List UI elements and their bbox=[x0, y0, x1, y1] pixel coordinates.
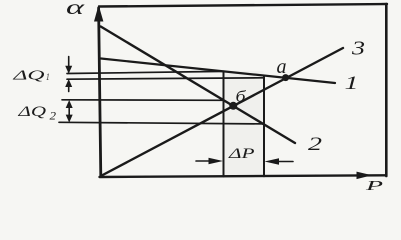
svg-text:1: 1 bbox=[46, 72, 50, 82]
svg-text:P: P bbox=[364, 178, 383, 193]
svg-text:3: 3 bbox=[351, 38, 365, 60]
svg-text:1: 1 bbox=[345, 73, 359, 94]
svg-text:ΔP: ΔP bbox=[228, 146, 255, 162]
svg-text:ΔQ: ΔQ bbox=[17, 104, 47, 120]
svg-text:2: 2 bbox=[50, 109, 57, 123]
svg-text:a: a bbox=[277, 56, 287, 78]
svg-text:б: б bbox=[236, 89, 247, 106]
svg-text:ΔQ: ΔQ bbox=[12, 69, 45, 84]
svg-text:α: α bbox=[66, 0, 86, 19]
svg-text:2: 2 bbox=[308, 134, 323, 155]
